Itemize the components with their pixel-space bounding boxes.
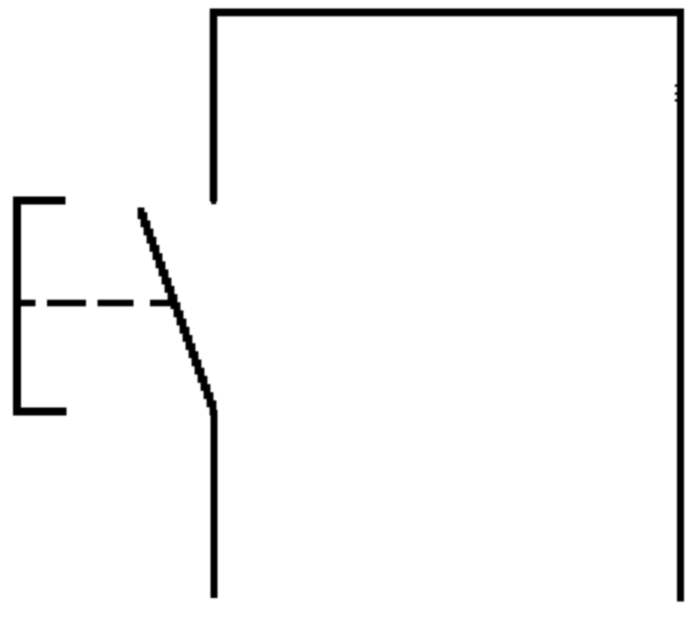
- wire: top vertical wire to switch: [210, 9, 218, 202]
- wire: lower vertical wire from switch: [211, 410, 218, 598]
- wire: right vertical wire: [677, 9, 684, 602]
- operator bracket (mechanical actuator): [17, 201, 67, 412]
- wire: top horizontal wire: [210, 8, 684, 16]
- tick marks on right wire: [675, 86, 679, 101]
- mechanical linkage (dashed line): [13, 300, 172, 307]
- switch blade (diagonal contact arm): [141, 208, 216, 413]
